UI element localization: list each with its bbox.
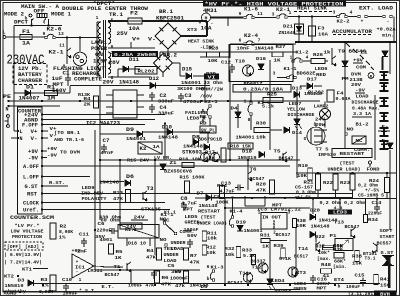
resistor R7 47K [184,248,189,260]
svg-text:10k: 10k [225,252,235,258]
svg-text:N: N [19,136,22,142]
resistor R38c 10K [293,219,297,228]
svg-text:K1-4: K1-4 [230,209,243,215]
svg-text:R7: R7 [190,253,197,259]
svg-text:4001: 4001 [100,237,113,243]
svg-text:HEAT SINK: HEAT SINK [188,39,214,45]
svg-text:0.48A Max.: 0.48A Max. [352,106,380,112]
svg-text:C8: C8 [214,194,221,200]
op-amp IC1 LM311 [72,254,94,278]
wire meter bus [211,17,243,19]
svg-text:F4: F4 [337,91,344,97]
svg-text:-: - [76,270,79,275]
svg-text:DISCHARGE: DISCHARGE [352,100,379,106]
shunt connection wires [317,173,319,175]
wire to K2-1 [66,38,68,50]
current box 0.23A/0.18A [233,85,291,93]
svg-text:1%: 1% [59,235,66,241]
terminal XT8 [380,128,389,136]
junction dots scatter [99,159,101,161]
wire bottom y270 [95,269,200,271]
svg-text:MODE 1: MODE 1 [51,12,71,18]
svg-text:5.1K: 5.1K [243,253,255,259]
svg-text:RED: RED [316,72,326,78]
svg-text:KBPC2501: KBPC2501 [156,16,184,22]
svg-text:R22: R22 [323,180,333,186]
svg-text:KT2: KT2 [4,274,14,280]
svg-text:1k: 1k [324,50,331,56]
svg-text:10K: 10K [208,58,218,64]
wire secondary 5 [108,20,128,22]
svg-text:9V PL: 9V PL [201,128,215,134]
junction dots buses [79,100,81,102]
svg-text:B: B [370,76,373,80]
svg-text:6: 6 [239,38,242,44]
transformer primary winding [98,22,101,76]
svg-text:Z1: Z1 [361,50,368,56]
resistor R2 [50,223,56,239]
svg-text:D: D [314,122,317,128]
svg-text:B1-2: B1-2 [356,122,369,128]
svg-text:V-: V- [31,136,38,142]
wire shunt bottom bus [296,198,396,200]
svg-text:Z1: Z1 [170,160,177,166]
wire vertical x225 extend [224,250,226,284]
shunt R22 [333,174,338,190]
svg-text:b: b [207,276,210,282]
battery charger annotation box [13,64,47,85]
svg-text:T10: T10 [235,59,245,65]
svg-text:13: 13 [58,31,64,37]
svg-text:4.7uF: 4.7uF [181,201,197,207]
wire ground bus bottom [30,283,380,285]
svg-text:UNDER: UNDER [164,252,179,258]
svg-text:BD681Z: BD681Z [244,81,263,87]
wire horizontal y198 [195,197,352,199]
capacitor C16 330nF MPT [310,275,316,284]
svg-text:R23: R23 [340,180,350,186]
svg-text:25V: 25V [117,31,128,37]
wire C14 drop [376,199,378,205]
svg-text:+9V: +9V [28,149,38,155]
wire vertical bus x248 [247,160,249,190]
svg-text:KT3: KT3 [296,270,306,276]
svg-text:0,2 Ohm 0,2 Ohm: 0,2 Ohm 0,2 Ohm [320,200,366,206]
svg-text:G: G [304,136,307,142]
svg-text:BC547: BC547 [228,280,243,286]
svg-text:C13: C13 [221,181,231,187]
svg-text:C6: C6 [98,221,105,227]
wire right edge drop [389,42,391,74]
svg-text:BR.1: BR.1 [159,9,173,15]
svg-text:D7: D7 [197,191,204,197]
svg-text:C5-16MB 5: C5-16MB 5 [358,193,384,199]
svg-text:NC: NC [356,138,363,144]
svg-text:RST: RST [27,192,37,198]
svg-text:(TEST: (TEST [340,161,355,167]
box 9V PL [200,126,216,133]
diode left mid [204,144,209,150]
svg-text:FOND: FOND [367,167,380,173]
svg-text:L: L [2,30,5,36]
terminal XT4 [380,72,389,80]
svg-text:47K: 47K [190,260,200,266]
resistor RL202 [135,67,157,75]
svg-text:100uF: 100uF [346,284,360,290]
svg-text:LED3: LED3 [333,211,347,216]
wire vertical bus x165 [164,123,166,160]
shunt R21 [316,174,321,190]
svg-text:220uF: 220uF [368,211,382,217]
restart box [332,149,372,158]
wire row 57 [200,56,229,58]
wire accumulator thick bus [296,41,396,43]
svg-text:D20: D20 [310,208,320,214]
svg-text:R4: R4 [147,248,154,254]
svg-text:D16: D16 [256,56,266,62]
svg-text:CHARGER: CHARGER [18,78,42,84]
svg-text:EXT. LOAD: EXT. LOAD [359,6,393,12]
svg-text:1N4001: 1N4001 [181,80,201,86]
svg-text:-: - [387,20,390,25]
svg-text:47K: 47K [113,196,123,202]
svg-text:R6: R6 [162,275,169,281]
svg-text:-9V: -9V [28,156,38,162]
svg-text:+9V: +9V [72,248,81,254]
relay coil K2 [138,142,162,154]
svg-text:C10: C10 [62,277,72,283]
svg-text:1N4001: 1N4001 [236,135,255,141]
svg-text:D1: D1 [26,85,34,91]
thick bus right bottom [388,257,391,288]
svg-text:3.3 1A: 3.3 1A [353,111,371,117]
svg-text:16A: 16A [318,32,328,38]
svg-text:b: b [25,16,28,22]
svg-text:1A: 1A [153,144,160,150]
svg-text:L.OFF: L.OFF [23,175,39,181]
svg-text:K2-3: K2-3 [205,99,218,105]
wire D20 drop [312,199,314,215]
wire horizontal y160 [100,159,300,161]
svg-text:V-: V- [148,37,156,43]
svg-text:F3: F3 [318,26,325,32]
svg-text:R20: R20 [256,182,266,188]
transistor T13 right [288,267,298,277]
svg-text:3: 3 [273,71,276,77]
wire vertical bus x95 [94,130,96,270]
node N [7,105,9,107]
resistor R41 150 [374,275,379,285]
svg-text:PROTECTION: PROTECTION [12,234,42,240]
svg-text:4: 4 [350,10,353,16]
svg-text:LOAD: LOAD [171,246,184,252]
svg-text:CLOCK: CLOCK [23,201,39,207]
thick bar E+ [382,57,384,70]
node L terminal [3,36,6,39]
shunt R23 [350,174,355,190]
svg-text:K1-6: K1-6 [244,7,258,13]
wire fuse to bridge bus [142,20,207,22]
svg-text:TR.1: TR.1 [109,12,123,18]
wire vertical bus x100 [99,86,101,220]
svg-text:HEAT SINK: HEAT SINK [297,6,328,12]
svg-text:R19: R19 [298,163,308,169]
wire ic3 bus [207,197,352,199]
svg-text:K2-1: K2-1 [49,50,64,56]
svg-text:START: START [380,234,395,240]
svg-text:AND TR.1-6: AND TR.1-6 [54,137,84,143]
svg-text:24V: 24V [134,215,145,221]
resistor R38 15K [355,251,360,262]
svg-text:+: + [76,260,79,265]
inverted label LED3 [328,210,352,215]
main switch SW-A [37,14,47,18]
triac symbol [382,256,394,266]
svg-text:11: 11 [59,43,65,49]
svg-text:UNDER LOAD): UNDER LOAD) [328,167,361,173]
wire vertical bus x120 [119,160,121,224]
svg-text:10k: 10k [207,236,217,242]
svg-text:V+: V+ [31,129,38,135]
svg-text:R16 10K: R16 10K [179,157,201,163]
svg-text:IC3 LM7912,12: IC3 LM7912,12 [257,207,301,213]
svg-text:D12: D12 [149,76,159,82]
svg-text:F.OFF: F.OFF [22,123,38,129]
svg-text:10nF: 10nF [237,46,250,52]
svg-text:4,7uF: 4,7uF [220,189,235,195]
svg-text:4-8: 4-8 [334,207,344,211]
svg-text:C3: C3 [185,93,192,99]
svg-text:IN OUT: IN OUT [262,215,281,221]
svg-text:R33: R33 [242,248,252,254]
label 0.25A 2W50R inverted [112,51,158,57]
ext load terminals [358,15,361,18]
svg-text:100uF 47K: 100uF 47K [128,283,154,289]
svg-text:R31: R31 [260,233,270,239]
svg-text:SOFT: SOFT [380,228,393,234]
svg-text:PE: PE [3,94,11,100]
svg-text:9: 9 [239,11,242,17]
svg-text:E.T.: E.T. [102,284,115,290]
wire vertical x296 bottom [295,228,297,273]
svg-text:R30: R30 [256,121,266,127]
svg-text:100nF: 100nF [184,227,199,233]
svg-text:R3: R3 [41,277,48,283]
svg-text:1A: 1A [22,41,30,47]
svg-text:4700uF: 4700uF [183,99,203,105]
svg-text:R48: R48 [321,262,331,268]
resistor R11 10k [202,231,207,241]
svg-text:0.23A/0.18A: 0.23A/0.18A [243,87,283,93]
svg-text:T7 S: T7 S [316,147,329,153]
svg-text:[max.: [max. [317,256,331,262]
svg-text:IC1: IC1 [75,265,85,271]
svg-text:[min.: [min. [333,264,347,270]
svg-text:F2: F2 [130,11,138,17]
svg-text:4: 4 [306,55,309,61]
svg-text:BC547: BC547 [345,224,360,230]
transistor T4 circle [201,153,210,162]
terminal XT7 [380,113,389,121]
wire LED3 drop [339,199,341,210]
meter PM circle [368,73,374,79]
svg-text:UNDER: UNDER [171,240,186,246]
svg-text:G.ST: G.ST [25,184,38,190]
svg-text:YELLOW: YELLOW [287,107,305,113]
svg-text:LOAD: LOAD [356,94,369,100]
svg-text:+9V: +9V [353,58,363,64]
svg-text:T13: T13 [334,220,344,226]
svg-text:BZX55C6V8: BZX55C6V8 [164,169,192,175]
svg-text:D17: D17 [307,77,317,83]
svg-text:R41: R41 [380,277,390,283]
svg-text:TO DVM: TO DVM [60,150,80,156]
svg-text:6: 6 [207,264,210,270]
svg-text:K1.2: K1.2 [125,227,137,233]
svg-text:10K: 10K [296,223,306,229]
svg-text:1N4148: 1N4148 [158,135,178,141]
svg-text:68K*: 68K* [334,259,346,265]
resistor R4 47K [157,248,162,260]
svg-text:C2: C2 [160,93,167,99]
svg-text:ZN1640: ZN1640 [279,30,296,36]
svg-text:1N4148: 1N4148 [199,203,218,209]
wire vertical bus x297 [296,90,298,178]
svg-text:RESTART: RESTART [198,209,220,215]
LED right column [382,51,388,56]
svg-text:COMPLETE: COMPLETE [74,77,102,83]
resistor R34 [364,215,368,223]
svg-text:D11: D11 [129,57,139,63]
svg-text:R15 100K: R15 100K [180,175,205,181]
svg-text:RESTART: RESTART [340,151,365,157]
svg-text:K2-4: K2-4 [244,33,258,39]
svg-text:10K: 10K [297,173,307,179]
svg-text:[ADJ]: [ADJ] [25,244,39,250]
wire vertical bus x230 [229,70,231,160]
svg-text:3: 3 [333,10,336,16]
svg-text:1000uF: 1000uF [170,276,188,282]
wire K1 coil leads [126,238,128,246]
resistor R18 15K [228,143,253,149]
wire lamp2 leads [324,120,326,128]
resistor R6 47K [155,271,160,283]
svg-text:[3.11.2011: [3.11.2011 [348,291,376,296]
svg-text:1N4148: 1N4148 [255,46,274,52]
svg-text:R37: R37 [315,244,325,250]
wire lamp bottom [79,66,81,70]
bridge rectifier BR.2 [154,54,173,73]
svg-text:BC547: BC547 [250,176,265,182]
svg-text:K1.1: K1.1 [164,210,176,216]
svg-text:D21: D21 [283,24,293,30]
left edge terminal B [7,125,10,128]
resistor R5 1K [109,244,114,254]
svg-text:10k: 10k [206,250,216,256]
svg-text:BC547: BC547 [279,156,294,162]
transformer secondary windings [108,22,111,74]
lamp LAMP1 [73,52,87,66]
svg-text:XT3: XT3 [187,27,197,33]
svg-text:* S.T.: * S.T. [79,288,97,294]
svg-text:47K: 47K [256,188,266,194]
svg-text:LED9: LED9 [82,185,95,191]
svg-text:(TEST: (TEST [201,215,216,221]
svg-text:100uF: 100uF [63,291,78,296]
svg-text:D4: D4 [231,106,238,112]
svg-text:1: 1 [96,15,99,21]
svg-text:1K: 1K [274,58,281,64]
wire N bus [9,105,61,107]
svg-text:1N4148: 1N4148 [311,224,330,230]
svg-text:R28: R28 [209,46,219,52]
svg-text:K2: K2 [140,146,147,152]
svg-text:/60V: /60V [200,94,212,100]
svg-text:R12: R12 [206,245,216,251]
svg-text:L: L [19,129,22,135]
wire bottom bus 2 [200,289,300,291]
svg-text:K1-3: K1-3 [211,265,224,271]
shunt R24 [385,178,390,193]
wire mains to switch [14,25,62,27]
terminal XT6 [380,98,389,106]
svg-text:T12: T12 [252,265,262,271]
svg-text:T3.1: T3.1 [365,256,376,262]
svg-text:R.ST.: R.ST. [49,180,65,186]
svg-text:1N4148: 1N4148 [99,180,119,186]
svg-text:47nF: 47nF [101,150,114,156]
svg-text:b: b [338,284,341,290]
svg-text:LED6: LED6 [315,66,328,72]
svg-text:BD679C1B: BD679C1B [198,137,222,143]
svg-text:LED5: LED5 [185,214,198,220]
svg-text:AGND: AGND [4,291,17,296]
svg-text:D18: D18 [242,149,252,155]
svg-text:6: 6 [111,44,114,50]
svg-text:1K: 1K [115,255,122,261]
svg-text:11: 11 [257,11,263,17]
svg-text:K1-5: K1-5 [258,100,271,106]
resistor R3 [50,275,56,291]
svg-text:LED7: LED7 [289,101,302,107]
svg-text:D9: D9 [126,127,134,133]
svg-text:DVM: DVM [351,72,361,78]
svg-text:R13K: R13K [78,93,90,98]
svg-text:C4: C4 [160,105,167,111]
wire mid distribution [100,133,137,135]
svg-text:T5: T5 [274,149,281,155]
svg-text:1N5819: 1N5819 [5,283,24,289]
wire L line [6,36,20,38]
svg-text:STK603: STK603 [182,150,202,156]
wire horizontal y208 [225,207,310,209]
svg-text:RE: RE [200,114,207,120]
svg-text:28V: 28V [109,60,120,66]
svg-text:LOW VOLTAGE: LOW VOLTAGE [11,229,44,235]
terminal XT5 [380,83,389,91]
svg-text:Uref.: Uref. [23,208,39,214]
wire c1 leads [67,70,69,75]
capacitor C5 [151,270,157,279]
svg-text:430 Ohm: 430 Ohm [99,215,121,221]
svg-text:1: 1 [289,10,292,16]
svg-text:RL202: RL202 [138,69,155,75]
svg-text:RL202: RL202 [308,90,324,96]
svg-text:NO: NO [347,127,354,133]
svg-text:[OFF]: [OFF] [7,244,21,250]
svg-text:ET4: ET4 [334,277,344,283]
svg-text:330uF: 330uF [158,99,174,105]
